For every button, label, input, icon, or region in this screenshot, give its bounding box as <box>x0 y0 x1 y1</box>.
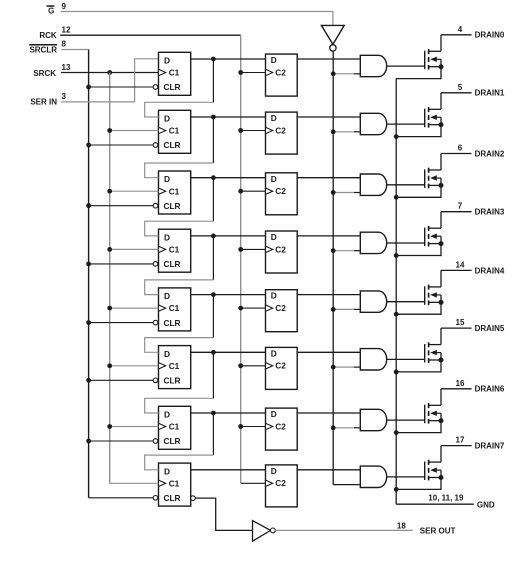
wire CLR feed row 5 <box>89 379 154 381</box>
junction enable bus row 1 <box>331 129 336 134</box>
wire enable feed row 0 <box>333 73 354 75</box>
wire C1 feed row 1 <box>110 130 159 132</box>
wire SER IN to FF1 D <box>61 59 159 102</box>
wire C1 feed row 3 <box>110 248 159 250</box>
svg-text:C2: C2 <box>275 361 286 371</box>
wire AND output to gate of Q7 <box>387 476 425 478</box>
svg-text:DRAIN0: DRAIN0 <box>475 31 505 40</box>
svg-text:6: 6 <box>458 144 463 153</box>
wire enable feed row 6 <box>333 427 354 429</box>
wire shift Q2 to D3 <box>212 178 214 222</box>
junction source/body tie M0 <box>439 64 444 69</box>
wire C2 feed row 3 <box>241 248 266 250</box>
latch L1 (D/C2) <box>266 112 298 154</box>
svg-text:D: D <box>164 56 170 66</box>
junction source/body tie M5 <box>439 358 444 363</box>
wire shift Q0 to D1 <box>212 59 214 102</box>
junction SRCK bus row 3 <box>107 247 112 252</box>
svg-text:C1: C1 <box>169 478 180 488</box>
svg-text:3: 3 <box>62 92 67 101</box>
svg-text:D: D <box>164 174 170 184</box>
transistor M7 (power DMOS) <box>425 446 441 481</box>
wire CLR feed row 0 <box>89 86 154 88</box>
wire latch 3 output to AND gate <box>297 235 360 237</box>
junction source bus row 5 <box>394 370 399 375</box>
junction SRCLR bus row 2 <box>86 203 91 208</box>
junction enable bus row 0 <box>331 71 336 76</box>
junction SRCK bus row 6 <box>107 424 112 429</box>
bubble FF5 CLR input <box>153 378 158 383</box>
svg-text:15: 15 <box>456 318 465 327</box>
junction source bus row 3 <box>394 253 399 258</box>
svg-text:CLR: CLR <box>164 140 181 150</box>
AND gate A7 <box>360 466 386 487</box>
wire Q0 to latch D <box>191 58 266 60</box>
svg-text:C2: C2 <box>275 125 286 135</box>
svg-text:C1: C1 <box>169 68 180 78</box>
svg-text:4: 4 <box>458 25 463 34</box>
svg-text:C2: C2 <box>275 421 286 431</box>
wire SRCK pin line into FF1 C1 <box>61 72 159 74</box>
junction source/body tie M6 <box>439 418 444 423</box>
svg-text:D: D <box>271 348 277 358</box>
wire GND pin line <box>396 503 474 505</box>
wire DRAIN1 pin line <box>441 92 472 94</box>
AND gate A6 <box>360 409 386 430</box>
bubble FF3 CLR input <box>153 262 158 267</box>
wire CLR feed row 3 <box>89 263 154 265</box>
transistor M3 (power DMOS) <box>425 212 441 247</box>
wire AND output to gate of Q6 <box>387 419 425 421</box>
junction source bus row 6 <box>394 430 399 435</box>
junction C2 bus row 6 <box>238 424 243 429</box>
junction SRCK bus row 4 <box>107 306 112 311</box>
wire latch 6 output to AND gate <box>297 412 360 414</box>
junction Q5 branch <box>211 350 216 355</box>
junction Q1 branch <box>211 115 216 120</box>
bubble FF6 CLR input <box>153 439 158 444</box>
junction C2 bus row 0 <box>238 70 243 75</box>
wire CLR feed row 7 <box>89 497 154 499</box>
wire shift Q6 to D7 <box>212 413 214 455</box>
wire source of M6 to GND bus <box>396 421 441 433</box>
svg-text:C2: C2 <box>275 478 286 488</box>
AND gate A4 <box>360 291 386 312</box>
wire source of M5 to GND bus <box>396 360 441 372</box>
svg-text:10, 11, 19: 10, 11, 19 <box>428 493 464 502</box>
bubble on U2 output <box>271 528 276 533</box>
wire source of M3 to GND bus <box>396 244 441 256</box>
wire latch 4 output to AND gate <box>297 294 360 296</box>
wire C1 feed row 7 <box>110 482 159 484</box>
wire FF7 output to SER OUT buffer <box>195 498 252 530</box>
flip-flop FF3 (D/C1/CLR) <box>159 229 191 272</box>
svg-text:DRAIN1: DRAIN1 <box>475 89 505 98</box>
latch L0 (D/C2) <box>266 54 298 96</box>
svg-text:D: D <box>271 113 277 123</box>
wire C2 feed row 1 <box>241 130 266 132</box>
svg-text:DRAIN6: DRAIN6 <box>475 385 505 394</box>
transistor M5 (power DMOS) <box>425 328 441 363</box>
wire C2 feed row 6 <box>241 426 266 428</box>
junction C2 bus row 4 <box>238 306 243 311</box>
svg-text:C1: C1 <box>169 361 180 371</box>
svg-text:D: D <box>271 232 277 242</box>
junction source bus row 1 <box>394 134 399 139</box>
junction SRCLR bus row 5 <box>86 378 91 383</box>
latch L5 (D/C2) <box>266 347 298 389</box>
junction enable bus row 5 <box>331 365 336 370</box>
svg-text:C1: C1 <box>169 186 180 196</box>
wire DRAIN7 pin line <box>441 445 472 447</box>
wire AND output to gate of Q1 <box>387 123 425 125</box>
junction SRCK bus row 5 <box>107 363 112 368</box>
wire enable feed row 2 <box>333 192 354 194</box>
wire source of M7 to GND bus <box>396 478 441 490</box>
svg-text:CLR: CLR <box>164 376 181 386</box>
wire Q5 to latch D <box>191 351 266 353</box>
wire latch 2 output to AND gate <box>297 177 360 179</box>
junction Q0 branch <box>211 57 216 62</box>
wire C2 feed row 2 <box>241 190 266 192</box>
wire shift Q3 to D4 <box>212 236 214 280</box>
AND gate A0 <box>360 55 386 76</box>
wire latch 0 output to AND gate <box>297 58 360 60</box>
flip-flop FF2 (D/C1/CLR) <box>159 171 191 214</box>
wire C2 feed row 5 <box>241 365 266 367</box>
wire DRAIN6 pin line <box>441 388 472 390</box>
svg-text:SER OUT: SER OUT <box>420 526 456 535</box>
svg-text:C2: C2 <box>275 244 286 254</box>
wire DRAIN5 pin line <box>441 327 472 329</box>
bubble on inverter U1 output <box>330 45 336 51</box>
wire latch 5 output to AND gate <box>297 351 360 353</box>
svg-text:DRAIN4: DRAIN4 <box>475 266 505 275</box>
wire enable feed row 3 <box>333 250 354 252</box>
latch L3 (D/C2) <box>266 231 298 273</box>
svg-text:CLR: CLR <box>164 436 181 446</box>
wire SRCK bus <box>109 73 111 484</box>
svg-text:C1: C1 <box>169 126 180 136</box>
junction source bus row 2 <box>394 195 399 200</box>
svg-text:CLR: CLR <box>164 82 181 92</box>
svg-text:CLR: CLR <box>164 493 181 503</box>
wire DRAIN3 pin line <box>441 211 472 213</box>
wire SER OUT pin line <box>275 529 412 531</box>
wire DRAIN4 pin line <box>441 269 472 271</box>
wire C1 feed row 6 <box>110 426 159 428</box>
junction C2 bus row 2 <box>238 189 243 194</box>
junction Q6 branch <box>211 411 216 416</box>
svg-text:C1: C1 <box>169 245 180 255</box>
svg-text:SER IN: SER IN <box>30 98 57 107</box>
wire G-bar from pin 9 to inverter <box>61 12 333 26</box>
junction enable bus row 4 <box>331 307 336 312</box>
svg-text:13: 13 <box>62 63 71 72</box>
junction SRCLR bus row 1 <box>86 143 91 148</box>
junction enable bus row 6 <box>331 425 336 430</box>
svg-text:CLR: CLR <box>164 259 181 269</box>
svg-text:17: 17 <box>456 436 465 445</box>
wire RCK pin line <box>60 34 241 36</box>
svg-text:8: 8 <box>62 39 67 48</box>
wire Q3 to latch D <box>191 235 266 237</box>
wire DRAIN2 pin line <box>441 153 472 155</box>
svg-text:DRAIN5: DRAIN5 <box>475 324 505 333</box>
svg-text:C1: C1 <box>169 422 180 432</box>
svg-text:C1: C1 <box>169 303 180 313</box>
wire RCK / C2 clock bus <box>240 35 242 483</box>
junction C2 bus row 5 <box>238 363 243 368</box>
wire source of M2 to GND bus <box>396 185 441 197</box>
svg-text:5: 5 <box>458 83 463 92</box>
wire Q1 to latch D <box>191 116 266 118</box>
junction source bus row 7 <box>394 487 399 492</box>
wire SRCLR pin line <box>61 49 88 51</box>
flip-flop FF4 (D/C1/CLR) <box>159 288 191 331</box>
latch L6 (D/C2) <box>266 408 298 450</box>
junction source bus row 4 <box>394 312 399 317</box>
wire enable feed row 4 <box>333 308 354 310</box>
svg-text:C2: C2 <box>275 303 286 313</box>
wire enable feed row 8 <box>333 484 360 486</box>
wire shift Q1 to D2 <box>212 117 214 163</box>
flip-flop FF1 (D/C1/CLR) <box>159 110 191 153</box>
wire CLR feed row 1 <box>89 144 154 146</box>
wire AND output to gate of Q4 <box>387 301 425 303</box>
svg-text:D: D <box>271 409 277 419</box>
wire Q6 to latch D <box>191 412 266 414</box>
wire CLR feed row 2 <box>89 205 154 207</box>
wire DRAIN0 pin line <box>441 34 472 36</box>
junction source/body tie M2 <box>439 183 444 188</box>
transistor M2 (power DMOS) <box>425 154 441 189</box>
bubble FF1 CLR input <box>153 143 158 148</box>
wire AND output to gate of Q5 <box>387 358 425 360</box>
wire CLR feed row 4 <box>89 322 154 324</box>
svg-text:D: D <box>271 291 277 301</box>
transistor M1 (power DMOS) <box>425 93 441 128</box>
svg-text:SRCK: SRCK <box>33 69 56 78</box>
wire C1 feed row 4 <box>110 307 159 309</box>
wire C2 feed row 4 <box>241 307 266 309</box>
junction SRCLR bus row 0 <box>86 85 91 90</box>
svg-text:D: D <box>271 55 277 65</box>
wire CLR feed row 6 <box>89 440 154 442</box>
wire AND output to gate of Q3 <box>387 242 425 244</box>
latch L4 (D/C2) <box>266 290 298 332</box>
wire C2 feed row 7 <box>241 482 266 484</box>
flip-flop FF7 (D/C1/CLR) <box>159 463 191 506</box>
svg-text:D: D <box>164 114 170 124</box>
bubble FF4 CLR input <box>153 320 158 325</box>
junction C2 bus row 3 <box>238 247 243 252</box>
wire source of M0 to GND bus <box>396 67 441 79</box>
svg-text:D: D <box>271 466 277 476</box>
wire source of M4 to GND bus <box>396 302 441 314</box>
svg-text:18: 18 <box>397 521 406 530</box>
latch L7 (D/C2) <box>266 465 298 507</box>
svg-text:14: 14 <box>456 260 465 269</box>
flip-flop FF5 (D/C1/CLR) <box>159 346 191 389</box>
wire Q7 to latch D <box>191 469 266 471</box>
wire C1 feed row 2 <box>110 190 159 192</box>
junction enable bus row 3 <box>331 248 336 253</box>
bubble FF7 complement output <box>191 496 196 501</box>
wire latch 7 output to AND gate <box>297 469 360 471</box>
AND gate A1 <box>360 113 386 134</box>
flip-flop FF0 (D/C1/CLR) <box>159 52 191 95</box>
AND gate A5 <box>360 349 386 370</box>
svg-text:D: D <box>164 291 170 301</box>
junction SRCLR bus row 6 <box>86 439 91 444</box>
wire Q4 to latch D <box>191 294 266 296</box>
wire enable feed row 5 <box>333 366 354 368</box>
svg-text:D: D <box>271 174 277 184</box>
wire shift Q4 to D5 <box>212 295 214 338</box>
wire shift Q5 to D6 <box>212 352 214 398</box>
wire latch 1 output to AND gate <box>297 116 360 118</box>
svg-text:DRAIN3: DRAIN3 <box>475 208 505 217</box>
junction SRCK bus row 1 <box>107 128 112 133</box>
inverter U1 (G enable, pointing down) <box>321 25 344 44</box>
junction source/body tie M7 <box>439 475 444 480</box>
svg-text:DRAIN7: DRAIN7 <box>475 442 505 451</box>
junction source/body tie M3 <box>439 241 444 246</box>
AND gate A3 <box>360 232 386 253</box>
svg-text:9: 9 <box>62 2 67 11</box>
svg-text:12: 12 <box>62 26 71 35</box>
junction Q2 branch <box>211 175 216 180</box>
svg-text:CLR: CLR <box>164 318 181 328</box>
wire Q2 to latch D <box>191 177 266 179</box>
wire common source (GND) bus <box>395 79 397 505</box>
svg-text:DRAIN2: DRAIN2 <box>475 149 505 158</box>
junction enable bus row 2 <box>331 190 336 195</box>
flip-flop FF6 (D/C1/CLR) <box>159 406 191 449</box>
wire enable bus (AND gate inputs) <box>332 51 334 484</box>
transistor M0 (power DMOS) <box>425 35 441 70</box>
junction SRCK bus tap <box>107 70 112 75</box>
svg-text:D: D <box>164 410 170 420</box>
junction SRCLR bus row 3 <box>86 262 91 267</box>
latch L2 (D/C2) <box>266 173 298 215</box>
transistor M4 (power DMOS) <box>425 270 441 305</box>
svg-text:GND: GND <box>477 500 495 509</box>
wire C1 feed row 5 <box>110 365 159 367</box>
AND gate A2 <box>360 174 386 195</box>
svg-text:SRCLR: SRCLR <box>29 45 57 54</box>
junction SRCLR bus row 4 <box>86 320 91 325</box>
svg-text:D: D <box>164 349 170 359</box>
bubble FF2 CLR input <box>153 203 158 208</box>
wire enable feed row 1 <box>333 131 354 133</box>
svg-text:RCK: RCK <box>39 31 57 40</box>
junction source/body tie M1 <box>439 122 444 127</box>
wire SRCLR bus <box>88 50 90 498</box>
bubble FF7 CLR input <box>153 496 158 501</box>
wire AND output to gate of Q2 <box>387 184 425 186</box>
svg-text:C2: C2 <box>275 186 286 196</box>
inverter U2 (SER OUT) <box>253 521 271 542</box>
svg-text:D: D <box>164 232 170 242</box>
transistor M6 (power DMOS) <box>425 389 441 424</box>
svg-text:16: 16 <box>456 379 465 388</box>
svg-text:G: G <box>48 7 54 16</box>
bubble FF0 CLR input <box>153 85 158 90</box>
junction Q3 branch <box>211 234 216 239</box>
wire C2 feed row 0 <box>241 72 266 74</box>
junction Q4 branch <box>211 292 216 297</box>
junction SRCK bus row 2 <box>107 189 112 194</box>
junction C2 bus row 1 <box>238 128 243 133</box>
svg-text:7: 7 <box>458 202 463 211</box>
wire source of M1 to GND bus <box>396 125 441 137</box>
svg-text:CLR: CLR <box>164 201 181 211</box>
svg-text:C2: C2 <box>275 67 286 77</box>
wire AND output to gate of Q0 <box>387 65 425 67</box>
junction source/body tie M4 <box>439 300 444 305</box>
svg-text:D: D <box>164 466 170 476</box>
